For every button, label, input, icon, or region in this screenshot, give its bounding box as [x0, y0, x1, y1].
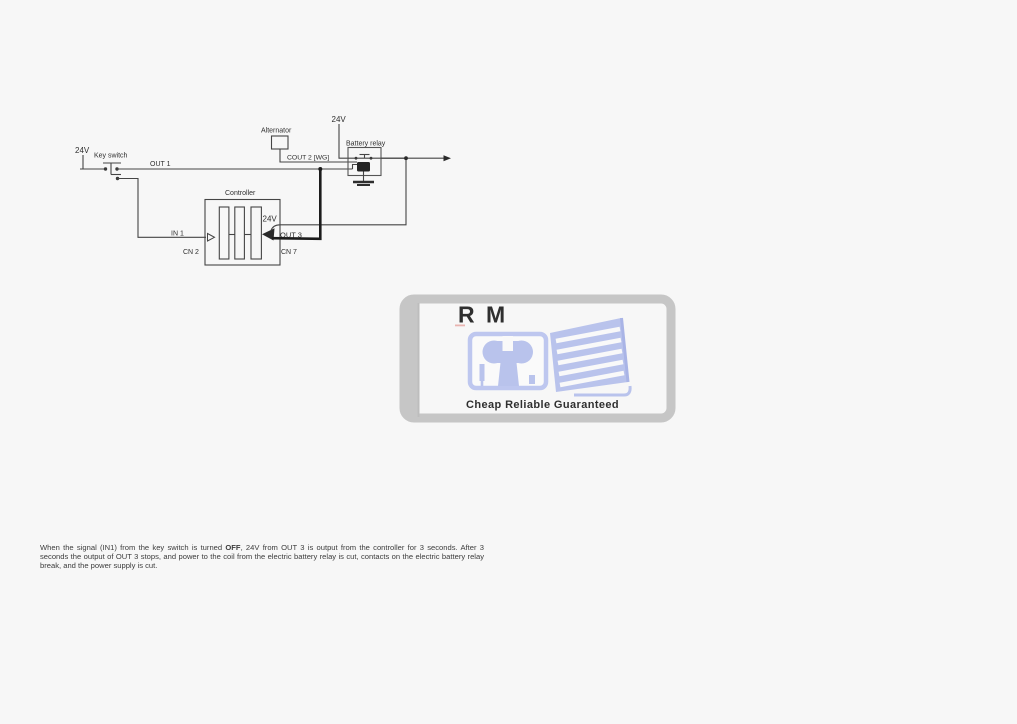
wire OUT1 hook into coil [353, 165, 358, 170]
OUT 3 arrow into controller [262, 228, 275, 240]
controller connector bar 3 [251, 207, 261, 259]
wire key switch feed [80, 168, 105, 170]
alternator box [272, 136, 289, 149]
svg-text:Cheap Reliable Guaranteed: Cheap Reliable Guaranteed [466, 399, 619, 411]
watermark dash under R [455, 325, 465, 327]
svg-text:CN 7: CN 7 [281, 249, 297, 256]
controller connector bar 2 [235, 207, 245, 259]
controller connector bar 1 [219, 207, 229, 259]
IN 1 input triangle [208, 234, 215, 242]
key switch SW1 [103, 163, 121, 180]
svg-text:Battery relay: Battery relay [346, 141, 386, 148]
battery relay contact wire [348, 157, 406, 159]
watermark book [550, 318, 628, 392]
watermark small mark [529, 375, 535, 384]
wire 24V drop to key switch [82, 155, 84, 169]
wire COUT 2 [280, 149, 357, 162]
watermark card outline [470, 334, 546, 388]
wire 24V drop to battery relay [339, 124, 348, 158]
battery relay K1 box [348, 148, 381, 176]
FLOWCHART [0, 0, 1, 1]
svg-text:CN 2: CN 2 [183, 249, 199, 256]
svg-text:Controller: Controller [225, 190, 256, 197]
watermark wrench [483, 341, 534, 387]
arrow relay output [444, 155, 452, 161]
svg-text:Alternator: Alternator [261, 128, 292, 135]
controller connector link ticks [229, 234, 235, 236]
watermark swoosh [574, 386, 630, 395]
wire battery relay output [381, 157, 446, 159]
PAGETEXT [0, 0, 1, 1]
wire key switch to IN 1 [118, 179, 207, 238]
svg-text:24V: 24V [332, 115, 347, 124]
battery relay coil [357, 162, 370, 172]
ground [353, 182, 374, 185]
svg-text:OUT 1: OUT 1 [150, 161, 171, 168]
svg-text:IN 1: IN 1 [171, 231, 184, 238]
wire coil to ground [363, 172, 365, 182]
junction OUT1/OUT3 [318, 167, 322, 171]
watermark wrench notch [503, 336, 514, 351]
watermark grey frame [404, 299, 671, 418]
TIMECHART [0, 0, 1, 1]
svg-text:24V: 24V [263, 215, 278, 224]
svg-text:Key switch: Key switch [94, 153, 128, 160]
wire OUT 1 [117, 168, 353, 170]
WATERMARK [404, 299, 671, 419]
wire OUT 3 thin from relay output [271, 158, 406, 230]
controller U1 box [205, 200, 280, 266]
junction relay output [404, 156, 408, 160]
watermark screwdriver [480, 364, 485, 381]
svg-text:M: M [486, 302, 505, 328]
wire OUT 3 thick [272, 169, 320, 239]
watermark frame left inner edge [418, 303, 420, 417]
svg-text:R: R [458, 302, 475, 328]
CIRCUIT [75, 115, 451, 265]
battery relay contact [355, 155, 373, 160]
svg-text:COUT 2 [WG]: COUT 2 [WG] [287, 155, 329, 162]
watermark frame left inner band [406, 300, 418, 419]
svg-text:24V: 24V [75, 146, 90, 155]
